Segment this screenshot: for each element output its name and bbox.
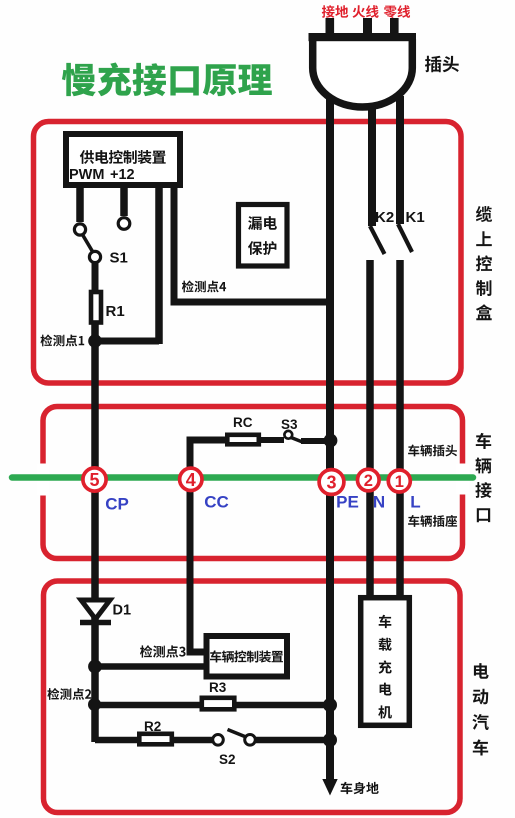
svg-text:S3: S3 <box>281 417 298 432</box>
resistor R3 <box>202 698 235 710</box>
wire PE tail <box>326 440 334 781</box>
label 车载充电机 <box>378 615 392 719</box>
switch S3 contact <box>284 431 292 439</box>
resistor RC <box>227 435 258 445</box>
node 检测点2 <box>88 698 101 711</box>
wire PE from plug <box>326 90 334 438</box>
label 检测点3 <box>140 645 186 657</box>
wire 检测点3 link <box>95 663 206 670</box>
plug prong: live pin <box>363 18 372 37</box>
wire R2 row left <box>95 737 213 744</box>
label 供电控制装置 <box>80 150 166 164</box>
pin 4 (CC) <box>180 468 202 490</box>
wire N lower <box>366 260 374 597</box>
svg-text:L: L <box>410 493 420 512</box>
resistor R1 <box>91 292 101 323</box>
wire to PE (检测点4) <box>171 184 331 302</box>
box: cable control box (缆上控制盒) <box>34 122 462 384</box>
svg-text:5: 5 <box>89 470 99 490</box>
label 火线 (live) <box>353 5 379 18</box>
svg-text:R1: R1 <box>106 303 125 320</box>
node 检测点3 <box>88 660 102 674</box>
pin 5 (CP) <box>83 468 106 491</box>
svg-text:S1: S1 <box>110 250 128 267</box>
label 检测点2 <box>47 688 91 700</box>
node 检测点1 <box>88 334 102 348</box>
wire S1 to R1 <box>92 262 99 292</box>
label 插头 (plug) <box>425 56 459 72</box>
label 检测点1 <box>41 335 85 347</box>
wire 检测点1 junction link <box>95 338 159 345</box>
label 接地 (earth) <box>322 5 348 18</box>
wire CC vertical <box>190 440 227 652</box>
pin 3 (PE) <box>319 470 344 495</box>
switch K2 blade <box>370 226 385 254</box>
svg-text:4: 4 <box>186 470 196 490</box>
svg-text:R2: R2 <box>144 719 161 734</box>
svg-text:PWM: PWM <box>69 167 104 183</box>
plug body (插头) <box>313 39 413 107</box>
switch S1 bottom contact <box>89 251 100 262</box>
switch K1 blade <box>398 224 412 252</box>
wire L from plug to K1 <box>396 96 404 224</box>
title 慢充接口原理 <box>62 63 272 97</box>
plug prong: earth pin <box>326 18 335 37</box>
svg-text:D1: D1 <box>113 603 132 619</box>
node S3/PE junction <box>324 434 338 448</box>
switch S2 left contact <box>213 735 224 746</box>
svg-text:1: 1 <box>395 473 404 491</box>
wire PWM output <box>76 184 84 222</box>
label 车辆控制装置 <box>210 650 283 662</box>
node R3/PE junction <box>323 698 337 712</box>
plug prong: neutral pin <box>390 18 399 37</box>
switch S1 blade <box>83 236 93 252</box>
box U2 车辆控制装置 (vehicle control device) <box>207 636 288 677</box>
wire N from plug to K2 <box>368 96 376 226</box>
svg-text:K1: K1 <box>406 209 425 226</box>
switch S2 right contact <box>245 735 256 746</box>
switch S1 top contact <box>74 224 85 235</box>
wire L lower <box>396 260 404 597</box>
box 车载充电机 (on-board charger) <box>361 598 410 726</box>
svg-text:CC: CC <box>204 493 229 512</box>
label 车辆插头 (vehicle plug) <box>408 445 457 457</box>
pin 2 (N) <box>358 469 380 491</box>
svg-text:RC: RC <box>233 415 253 430</box>
wire +12 output <box>120 184 128 216</box>
terminal +12 contact <box>118 218 130 230</box>
label 车辆插座 (vehicle socket) <box>408 515 457 527</box>
wire S2 to PE <box>256 737 331 744</box>
wire CP main vertical <box>91 322 99 742</box>
svg-text:CP: CP <box>105 495 129 514</box>
label 零线 (neutral) <box>384 5 410 18</box>
switch S2 blade <box>228 730 247 738</box>
box U1 供电控制装置 (supply control device) <box>66 134 180 185</box>
diode D1 <box>81 600 110 619</box>
wire S3 to PE <box>301 438 330 444</box>
wire RC to S3 <box>261 437 284 443</box>
label 漏电 <box>248 216 277 230</box>
label 保护 <box>248 241 276 255</box>
svg-text:R3: R3 <box>209 680 227 695</box>
svg-text:3: 3 <box>326 472 336 492</box>
ground arrow 车身地 <box>322 779 337 796</box>
svg-text:N: N <box>373 493 385 512</box>
svg-text:K2: K2 <box>375 209 394 226</box>
label 检测点4 <box>182 281 226 293</box>
svg-text:2: 2 <box>364 472 373 490</box>
box: vehicle interface (车辆接口) <box>43 407 463 559</box>
pin 1 (L) <box>388 470 410 492</box>
label 电动汽车 (electric vehicle) <box>472 663 488 755</box>
label 车身地 <box>341 782 379 794</box>
label 车辆接口 (vehicle interface) <box>475 433 491 522</box>
wire CP sense drop <box>155 184 163 344</box>
node R2/PE junction <box>323 733 337 747</box>
wire R3 row <box>95 702 330 709</box>
interface boundary line <box>12 474 473 481</box>
box 漏电保护 (leakage protection) <box>239 205 288 267</box>
svg-text:PE: PE <box>336 493 359 512</box>
label 缆上控制盒 (cable control box) <box>476 206 492 320</box>
svg-text:S2: S2 <box>219 752 236 767</box>
box: electric vehicle (电动汽车) <box>44 581 461 813</box>
resistor R2 <box>139 734 172 745</box>
switch S3 blade <box>291 438 303 443</box>
svg-text:+12: +12 <box>110 167 135 183</box>
